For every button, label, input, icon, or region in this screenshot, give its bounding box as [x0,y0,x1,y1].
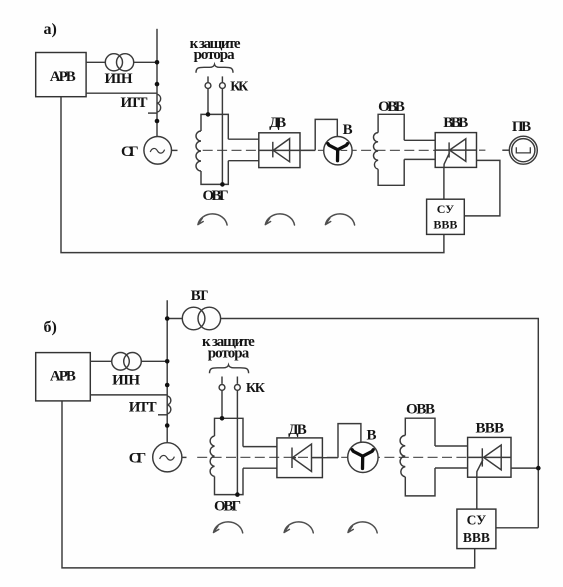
thyristor in VVV (b) [468,456,511,458]
current transformer ITT coil (a) [157,94,161,112]
SU VVV control box (a) [427,199,465,234]
OVG winding block (a) [201,114,228,184]
SG right lead (a) [171,149,177,151]
VVV thyristor box (a) [435,133,476,168]
wire bottom feedback loop (a) [61,97,444,253]
rotation arrows (a) [198,214,355,225]
thyristor in VVV (a) [435,149,476,151]
APB box (a) [36,53,86,97]
svg-text:ВВВ: ВВВ [463,530,490,545]
pilot exciter PV (a) [509,136,537,164]
SU VVV control box (b) [457,509,496,548]
sine symbol in SG (a) [150,148,164,153]
bottom feedback loop (b) [62,401,475,568]
svg-text:СГ: СГ [129,450,147,466]
svg-text:ротора: ротора [208,345,250,361]
OVG to DV channel (a) [228,139,258,161]
fan V circle (b) [348,442,378,472]
svg-text:ОВГ: ОВГ [203,188,229,204]
thyristor gate (b) [477,460,483,478]
svg-text:ДВ: ДВ [288,422,307,438]
contact KK left (b) [221,377,223,384]
bus vertical (a) [156,29,158,137]
contact KK right (b) [236,377,238,384]
top wire VT to right side (b) [167,319,538,528]
svg-text:б): б) [44,319,57,336]
svg-text:АРВ: АРВ [50,368,76,384]
OVV winding block (a) [378,114,404,185]
VVV thyristor box (b) [468,437,511,477]
junction dots (a) [155,60,225,187]
SU right loop (b) [496,527,538,529]
diode in DV (a) [259,149,315,151]
fan V circle (a) [324,137,352,165]
contact KK left (a) [207,76,209,82]
svg-text:а): а) [44,21,57,38]
wire APB to ITN (a) [86,61,106,63]
transformer ITN (b) [112,353,130,371]
wire APB to ITN (b) [90,360,111,362]
svg-text:ИТТ: ИТТ [129,400,157,416]
shaft dash between VVV and PV (a) [479,149,485,151]
OVV to VVV channel (b) [435,446,468,468]
svg-text:ротора: ротора [194,47,236,63]
OVG winding block (b) [215,418,244,494]
svg-text:В: В [343,122,353,138]
fan blades (b) [352,450,373,469]
contact KK right (a) [221,76,223,82]
fan blades (a) [328,144,348,161]
svg-text:СУ: СУ [437,202,455,216]
svg-text:КК: КК [246,381,266,396]
ITT bottom lead (a) [148,112,157,114]
VVV output to right bus (b) [511,467,538,469]
DV rectifier box (a) [259,133,300,168]
brace to rotor protection (a) [196,64,233,72]
svg-text:ВВВ: ВВВ [433,218,457,232]
shaft dash fragment inside V circle (a) [341,149,348,151]
PV left lead (a) [502,149,509,151]
wire APB to ITT (b) [90,394,167,396]
generator SG circle (b) [153,443,182,472]
svg-text:КК: КК [230,80,249,95]
wire APB to ITT (a) [86,92,157,94]
wire DV output (b) [312,457,339,459]
svg-text:ДВ: ДВ [269,115,286,131]
SG right lead (b) [182,456,187,458]
svg-text:ВВВ: ВВВ [443,115,468,131]
brace to rotor protection (b) [210,365,249,373]
wire ITN to bus (a) [133,61,157,63]
svg-text:ОВВ: ОВВ [378,99,405,115]
shaft dashed line (b) [197,456,467,458]
bus vertical (b) [166,300,168,442]
shaft dashed line (a) [203,149,435,151]
gate wire to SU VVV (b) [476,477,478,509]
transformer ITN (a) [105,54,122,71]
APB box (b) [36,353,91,401]
OVV to VVV channel (a) [404,140,435,159]
ITT bottom lead (b) [158,414,167,416]
rotation arrows (b) [214,522,378,533]
gate wire to SU VVV (a) [443,167,445,199]
VVV output loop to SU (a) [464,160,500,216]
OVG to DV channel (b) [243,447,277,469]
sine symbol in SG (b) [160,455,175,460]
diode in DV (b) [293,457,296,459]
svg-text:СУ: СУ [467,513,487,528]
svg-text:СГ: СГ [121,144,139,160]
svg-text:ИТТ: ИТТ [121,95,148,111]
svg-text:АРВ: АРВ [50,69,76,85]
thyristor gate (a) [444,153,450,168]
wire DV to V hook (a) [315,119,337,150]
svg-text:ПВ: ПВ [512,119,531,135]
junction dots (b) [165,316,541,497]
DV rectifier box (b) [277,438,323,478]
wire ITN to bus (b) [141,360,167,362]
svg-text:ИТН: ИТН [112,372,140,388]
svg-text:ВТ: ВТ [191,288,208,304]
svg-text:ОВВ: ОВВ [406,402,435,418]
current transformer ITT coil (b) [167,396,171,414]
transformer VT (b) [182,307,205,330]
svg-text:ОВГ: ОВГ [214,498,241,514]
OVV winding block (b) [405,418,435,496]
svg-text:ИТН: ИТН [105,71,133,87]
svg-text:ВВВ: ВВВ [476,421,505,437]
generator SG circle (a) [144,137,172,165]
wire DV to V hook (b) [338,424,361,458]
svg-text:В: В [367,427,377,443]
